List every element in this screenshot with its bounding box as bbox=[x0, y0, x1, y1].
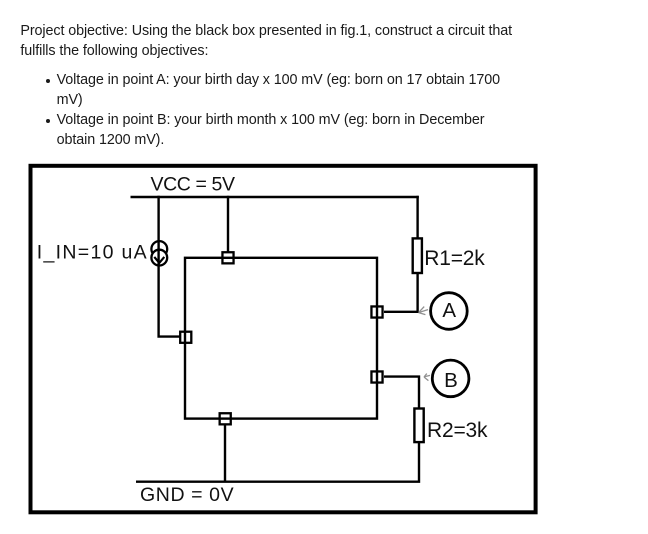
wire R1 bottom to right upper port bbox=[384, 273, 418, 312]
bullet 1 dot bbox=[46, 79, 50, 83]
wire VCC rail corner down to R1 bbox=[416, 196, 418, 239]
pin left port bbox=[180, 332, 191, 343]
leader arrow to node B bbox=[424, 374, 430, 381]
resistor R1 bbox=[413, 238, 422, 273]
pin bottom port bbox=[220, 413, 231, 424]
svg-text:VCC = 5V: VCC = 5V bbox=[151, 173, 235, 195]
pin top port bbox=[222, 252, 233, 263]
resistor R2 bbox=[414, 409, 423, 443]
node B bbox=[432, 360, 469, 397]
bullet 1 line 2 bbox=[57, 93, 83, 107]
wire VCC rail bbox=[131, 196, 419, 198]
black box U1 bbox=[185, 258, 377, 419]
wire right lower port to R2 bbox=[384, 377, 419, 409]
leader arrow to node A bbox=[419, 307, 428, 315]
current source I1 bbox=[151, 241, 167, 265]
bullet 2 line 1 bbox=[57, 113, 485, 127]
pin right upper port bbox=[371, 306, 382, 317]
wire from VCC rail through current source to left port bbox=[159, 196, 180, 337]
svg-text:I_IN=10 uA: I_IN=10 uA bbox=[37, 242, 148, 264]
svg-text:A: A bbox=[442, 299, 456, 322]
wire R2 bottom to GND rail bbox=[136, 443, 419, 482]
svg-text:R1=2k: R1=2k bbox=[424, 247, 485, 270]
paragraph line 2 bbox=[20, 44, 208, 58]
bullet 2 line 2 bbox=[57, 133, 165, 147]
paragraph line 1 bbox=[20, 24, 512, 38]
svg-text:R2=3k: R2=3k bbox=[427, 419, 488, 442]
wire bottom port to GND rail bbox=[224, 425, 226, 482]
wire top port to VCC rail bbox=[227, 196, 229, 254]
figure frame (decorative) bbox=[31, 166, 536, 513]
svg-text:B: B bbox=[444, 369, 458, 392]
bullet 1 line 1 bbox=[57, 73, 500, 87]
svg-text:GND = 0V: GND = 0V bbox=[140, 484, 234, 506]
bullet 2 dot bbox=[46, 119, 50, 123]
node A bbox=[431, 293, 468, 330]
pin right lower port bbox=[371, 371, 382, 382]
